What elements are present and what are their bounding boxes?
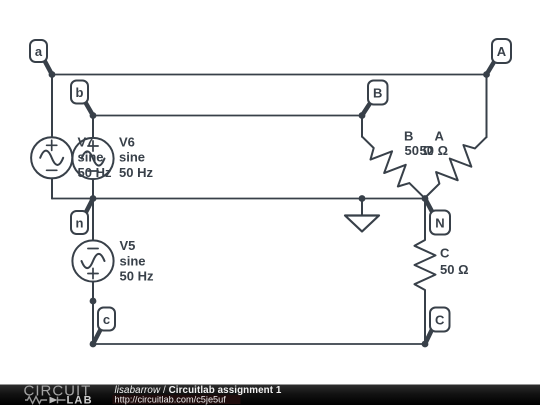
svg-text:V5: V5 <box>120 238 136 253</box>
ground junction <box>359 195 366 202</box>
wire top rail a-A <box>52 74 487 76</box>
wire b column (b junction to V6 top) <box>92 116 94 138</box>
wire V5 bottom to c corner <box>92 282 94 344</box>
wire V7 bottom to n rail <box>51 178 53 198</box>
voltage source V7 <box>31 137 72 178</box>
svg-text:C: C <box>435 313 445 328</box>
svg-text:A: A <box>497 44 507 59</box>
svg-text:sine: sine <box>78 150 104 165</box>
node B junction <box>359 112 366 119</box>
footer logo resistor-diode glyph <box>25 397 66 404</box>
ground <box>345 199 379 232</box>
node label b <box>71 81 93 116</box>
svg-text:A: A <box>435 129 445 144</box>
svg-text:50 Ω: 50 Ω <box>440 262 469 277</box>
svg-text:50 Hz: 50 Hz <box>119 165 153 180</box>
node label C <box>425 308 450 345</box>
wire A junction stub down <box>486 75 488 138</box>
svg-text:LAB: LAB <box>67 394 93 405</box>
svg-text:50 Hz: 50 Hz <box>78 165 112 180</box>
svg-text:c: c <box>103 312 110 327</box>
node label A <box>487 39 512 75</box>
voltage source V5 (flipped) <box>72 240 113 281</box>
wire B junction stub down <box>361 116 363 137</box>
svg-text:http://circuitlab.com/c5je5uf: http://circuitlab.com/c5je5uf <box>115 394 227 404</box>
node label N <box>425 199 450 235</box>
voltage source V6 <box>72 138 113 179</box>
node n junction <box>90 195 97 202</box>
svg-text:sine: sine <box>120 253 146 268</box>
wire b rail <box>93 115 362 117</box>
V5 bottom junction <box>90 298 97 305</box>
wire n junction to V5 top <box>92 199 94 241</box>
svg-text:n: n <box>76 216 84 231</box>
wire n rail <box>52 198 425 200</box>
node label B <box>362 81 388 116</box>
svg-text:50 Ω: 50 Ω <box>420 143 449 158</box>
svg-text:N: N <box>435 216 444 231</box>
resistor B (diagonal) <box>355 129 432 205</box>
svg-text:sine: sine <box>119 150 145 165</box>
node C junction <box>422 341 429 348</box>
svg-text:C: C <box>440 246 450 261</box>
label V5 value text <box>120 238 154 284</box>
node label a <box>30 40 52 75</box>
node c junction <box>90 341 97 348</box>
svg-text:b: b <box>76 85 84 100</box>
svg-text:50 Hz: 50 Hz <box>120 269 154 284</box>
svg-text:V7: V7 <box>78 134 94 149</box>
resistor C (vertical) <box>415 199 436 345</box>
node A junction <box>483 71 490 78</box>
label V7 value text <box>78 134 112 180</box>
svg-text:B: B <box>373 86 382 101</box>
node b junction <box>90 112 97 119</box>
wire V6 bottom to n rail <box>92 179 94 198</box>
label V6 value text <box>119 134 153 180</box>
svg-text:V6: V6 <box>119 134 135 149</box>
node label c <box>93 308 115 345</box>
node a junction <box>49 71 56 78</box>
resistor A (diagonal) <box>417 130 494 206</box>
wire bottom rail c-C <box>93 343 425 345</box>
footer url highlight <box>113 395 241 404</box>
wire left column x=52 (a to V7 top) <box>51 75 53 138</box>
svg-text:a: a <box>35 44 43 59</box>
svg-text:B: B <box>404 129 413 144</box>
node label n <box>71 199 93 235</box>
node N junction <box>422 195 429 202</box>
